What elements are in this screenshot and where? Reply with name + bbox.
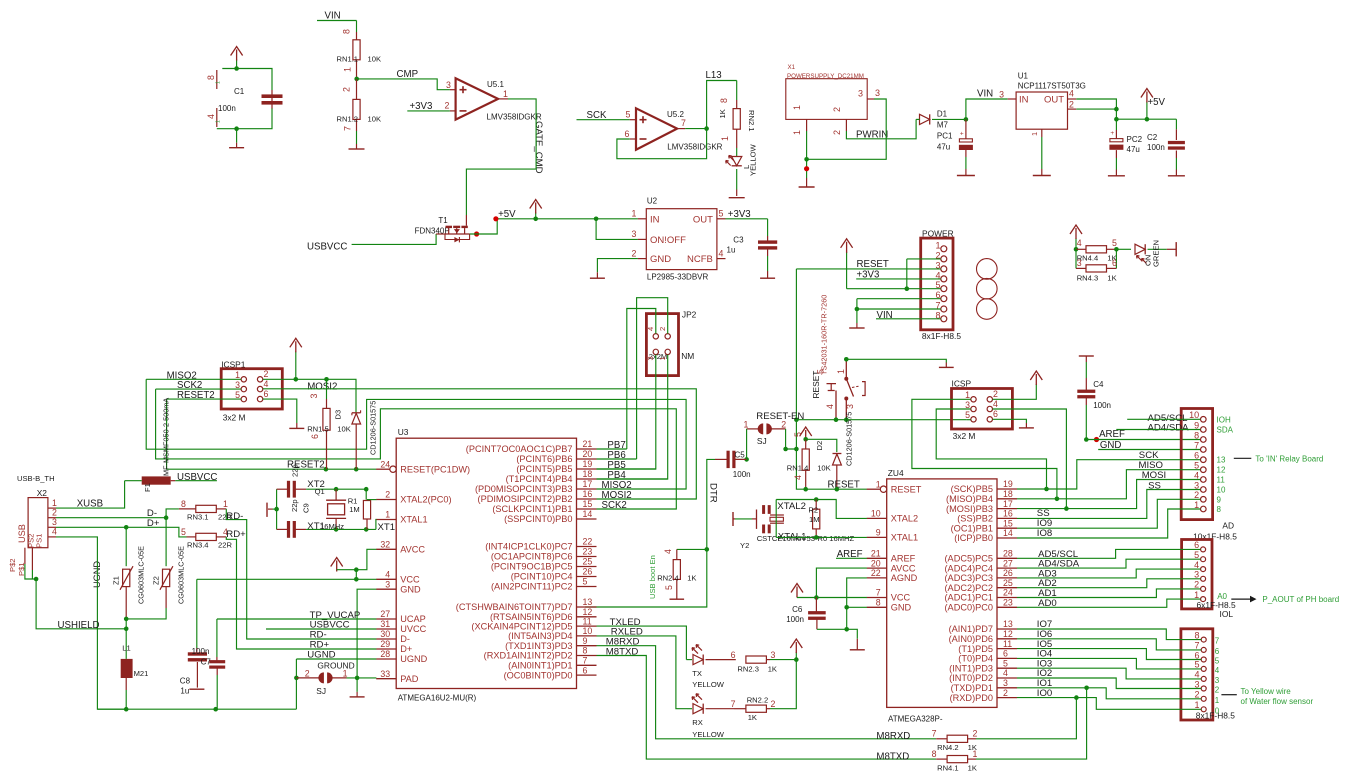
svg-text:GREEN: GREEN	[1152, 240, 1161, 267]
svg-text:(PCINT10)PC4: (PCINT10)PC4	[511, 572, 573, 582]
wire SJ pin1 to C5	[735, 429, 747, 460]
svg-text:2: 2	[973, 729, 978, 739]
svg-text:8: 8	[719, 98, 729, 103]
svg-text:23: 23	[1003, 598, 1013, 608]
svg-text:5: 5	[965, 410, 970, 420]
wire PAD row	[347, 677, 377, 679]
svg-text:100n: 100n	[1147, 143, 1165, 152]
svg-text:17: 17	[1003, 499, 1013, 509]
svg-text:1: 1	[216, 120, 222, 123]
svg-text:C7: C7	[201, 658, 212, 667]
svg-text:(AIN2PCINT11)PC2: (AIN2PCINT11)PC2	[491, 582, 573, 592]
svg-text:XTAL2(PC0): XTAL2(PC0)	[400, 495, 451, 505]
svg-text:2: 2	[385, 490, 390, 500]
svg-text:21: 21	[583, 439, 593, 449]
svg-text:LP2985-33DBVR: LP2985-33DBVR	[647, 273, 709, 282]
svg-text:(MISO)PB4: (MISO)PB4	[946, 494, 993, 504]
svg-text:47u: 47u	[937, 143, 950, 152]
X1 pin1 wire	[806, 131, 808, 178]
svg-text:SJ: SJ	[757, 436, 767, 446]
svg-text:6: 6	[1215, 647, 1220, 656]
wire AREF to AD pin8	[1200, 439, 1202, 441]
wire ICSP1 pin2 5V	[263, 379, 356, 412]
ground below U2	[596, 272, 598, 278]
svg-text:AREF: AREF	[1099, 429, 1125, 440]
wire XTAL2 stub	[367, 499, 376, 501]
resistor RN1.1	[356, 21, 358, 33]
LED TX yellow	[693, 655, 703, 665]
svg-text:6: 6	[625, 129, 630, 139]
svg-text:(ADC0)PC0: (ADC0)PC0	[945, 603, 994, 613]
op-amp U5.2	[636, 108, 677, 149]
resistor RN1.4 10K	[805, 439, 807, 449]
svg-text:IOH: IOH	[1217, 415, 1231, 424]
svg-text:2: 2	[1194, 490, 1199, 500]
svg-text:8: 8	[1194, 630, 1199, 640]
svg-text:32: 32	[380, 540, 390, 550]
svg-text:2: 2	[832, 107, 842, 112]
svg-text:TS42031-160R-TR-7260: TS42031-160R-TR-7260	[820, 295, 829, 375]
svg-text:RN4.2: RN4.2	[937, 743, 959, 752]
svg-text:1: 1	[1194, 500, 1199, 510]
capacitor C3 1u	[767, 219, 769, 236]
svg-text:2: 2	[1194, 580, 1199, 590]
svg-text:18: 18	[1003, 489, 1013, 499]
svg-text:25: 25	[583, 557, 593, 567]
svg-text:C5: C5	[735, 451, 746, 460]
svg-text:+5V: +5V	[1148, 97, 1166, 108]
svg-text:P$2: P$2	[8, 558, 17, 572]
wire 5V rail to U2	[536, 218, 638, 220]
resistor R1 1M	[365, 489, 367, 499]
svg-text:16: 16	[583, 489, 593, 499]
LED RX yellow	[693, 704, 703, 714]
ground below U1	[1041, 137, 1043, 169]
svg-text:XTAL2: XTAL2	[777, 501, 806, 512]
svg-text:NM: NM	[681, 351, 694, 361]
svg-text:USB: USB	[17, 524, 27, 543]
ground below C2	[1168, 175, 1185, 177]
svg-text:VCC: VCC	[400, 575, 420, 585]
svg-text:(ADC5)PC5: (ADC5)PC5	[945, 554, 994, 564]
resistor RN1.5 10K	[326, 379, 328, 399]
svg-text:(PDIMOSIPCINT2)PB2: (PDIMOSIPCINT2)PB2	[478, 494, 573, 504]
wire AGND ZU4	[847, 578, 867, 607]
svg-text:3: 3	[235, 380, 240, 390]
svg-text:YELLOW: YELLOW	[749, 144, 758, 176]
svg-text:22R: 22R	[218, 541, 232, 550]
svg-text:PC1: PC1	[937, 132, 953, 141]
svg-text:XTAL2: XTAL2	[891, 514, 918, 524]
VCC symbol above 5V rail	[535, 213, 537, 219]
svg-text:(PCINT5)PB5: (PCINT5)PB5	[516, 464, 572, 474]
svg-text:3x2 M: 3x2 M	[953, 431, 976, 441]
svg-text:AD: AD	[1222, 521, 1234, 531]
svg-text:(RXD)PD0: (RXD)PD0	[950, 693, 993, 703]
svg-text:28: 28	[1003, 549, 1013, 559]
svg-text:2: 2	[771, 699, 776, 709]
svg-text:21: 21	[871, 549, 881, 559]
svg-text:P_AOUT of PH board: P_AOUT of PH board	[1262, 595, 1339, 604]
svg-text:7: 7	[1215, 637, 1220, 646]
svg-text:USB-B_TH: USB-B_TH	[17, 474, 55, 483]
VCC symbol at U3 AVCC	[336, 569, 338, 572]
svg-text:10K: 10K	[337, 425, 351, 434]
U2 GND wire	[597, 259, 638, 273]
svg-text:+: +	[960, 130, 964, 137]
svg-text:1: 1	[503, 89, 508, 99]
svg-text:Z2: Z2	[151, 576, 160, 585]
wire XTAL1 stub	[375, 520, 378, 530]
svg-text:(PD0MISOPCINT3)PB3: (PD0MISOPCINT3)PB3	[475, 484, 573, 494]
svg-text:IN: IN	[1019, 95, 1029, 106]
svg-text:1: 1	[1030, 132, 1039, 136]
svg-text:X2: X2	[37, 488, 48, 498]
svg-text:NCFB: NCFB	[687, 254, 713, 265]
VCC symbol at C1	[236, 60, 238, 69]
POWER mounting holes	[977, 259, 998, 280]
svg-text:(SCK)PB5: (SCK)PB5	[951, 484, 993, 494]
svg-text:RN3.4: RN3.4	[187, 541, 209, 550]
ground below RN2.4	[670, 598, 685, 600]
svg-text:RN2.2: RN2.2	[747, 696, 769, 705]
annotation To IN Relay Board	[1234, 457, 1252, 459]
ground at crystal caps	[266, 503, 268, 517]
svg-text:26: 26	[583, 567, 593, 577]
diode D1 M7	[920, 114, 930, 124]
svg-text:U1: U1	[1018, 72, 1029, 81]
wire PB4 to JP2 pin1	[597, 355, 668, 479]
wire UGND to jumper	[295, 659, 297, 709]
ground below LED L	[729, 197, 745, 199]
svg-text:1: 1	[658, 356, 667, 360]
AD pin circles	[1201, 417, 1207, 423]
X1 pin3 wire	[807, 99, 887, 159]
svg-text:4: 4	[1215, 666, 1220, 675]
ground below C3	[767, 271, 769, 278]
svg-text:4: 4	[52, 527, 57, 537]
svg-text:1: 1	[720, 136, 730, 141]
svg-text:LMV358IDGKR: LMV358IDGKR	[667, 142, 722, 151]
svg-text:2: 2	[305, 668, 310, 678]
svg-text:4: 4	[793, 475, 803, 480]
diode D3 zener	[355, 411, 357, 413]
svg-text:18: 18	[583, 469, 593, 479]
VCC symbol +5V at U1	[1146, 102, 1148, 120]
svg-text:SJ: SJ	[316, 686, 326, 696]
svg-text:3x2 M: 3x2 M	[223, 412, 246, 422]
svg-text:1: 1	[744, 419, 749, 429]
svg-text:3: 3	[1194, 570, 1199, 580]
svg-text:TX: TX	[692, 669, 702, 678]
ground below RN1.2	[356, 144, 358, 149]
wire VCC row ZU4	[797, 597, 867, 599]
capacitor C5 100n	[727, 451, 730, 468]
svg-text:10: 10	[1189, 410, 1199, 420]
svg-text:6: 6	[264, 389, 269, 399]
svg-text:8: 8	[1194, 430, 1199, 440]
resistor RN4.4 1K	[1076, 248, 1086, 250]
svg-text:5: 5	[583, 577, 588, 587]
svg-text:4: 4	[1194, 470, 1199, 480]
wire POWER pin2 5V	[907, 258, 941, 260]
svg-text:5: 5	[1003, 658, 1008, 668]
svg-text:1K: 1K	[1107, 274, 1116, 283]
svg-text:3: 3	[446, 80, 451, 90]
svg-text:U2: U2	[647, 197, 658, 206]
capacitor C6 100n	[815, 598, 817, 612]
U5.2 feedback wire	[617, 129, 707, 159]
svg-text:13: 13	[583, 597, 593, 607]
svg-text:(INT4ICP1CLK0)PC7: (INT4ICP1CLK0)PC7	[485, 542, 572, 552]
svg-text:7: 7	[932, 729, 937, 739]
svg-text:RN4.1: RN4.1	[937, 763, 959, 772]
svg-text:RD+: RD+	[226, 529, 246, 540]
svg-text:D+: D+	[400, 644, 412, 654]
svg-text:(PCINT6)PB6: (PCINT6)PB6	[516, 454, 572, 464]
wire ICSP pin5 reset	[967, 419, 971, 421]
resistor RN3.1 22R	[196, 505, 217, 512]
svg-text:1: 1	[1215, 696, 1220, 705]
svg-text:VIN: VIN	[977, 89, 993, 100]
node RN4 output	[1114, 247, 1119, 252]
diode D2	[806, 439, 837, 452]
wire ICSP pin4 MOSI	[993, 409, 1067, 509]
ground below C6	[856, 639, 858, 650]
svg-text:(TXD)PD1: (TXD)PD1	[951, 683, 993, 693]
wire POWER pin7 gnd	[857, 308, 941, 310]
svg-text:YELLOW: YELLOW	[692, 730, 724, 739]
svg-text:3: 3	[845, 404, 855, 409]
svg-text:L13: L13	[706, 70, 722, 81]
capacitor C2 100n	[1175, 119, 1177, 129]
svg-text:1: 1	[385, 510, 390, 520]
svg-text:C1: C1	[234, 87, 245, 96]
svg-text:3: 3	[631, 229, 636, 239]
svg-text:(ADC3)PC3: (ADC3)PC3	[945, 573, 994, 583]
svg-text:(XCKAIN4PCINT12)PD5: (XCKAIN4PCINT12)PD5	[471, 621, 572, 631]
svg-text:14: 14	[1003, 528, 1013, 538]
svg-text:IN: IN	[650, 214, 660, 225]
svg-text:8: 8	[876, 598, 881, 608]
wire MISO2 bus	[146, 379, 686, 489]
wire RESET row	[796, 419, 966, 421]
svg-text:4: 4	[1077, 238, 1082, 248]
svg-text:6: 6	[1112, 258, 1117, 268]
svg-text:5: 5	[793, 432, 803, 437]
capacitor C1	[222, 69, 272, 91]
svg-text:(SCLKPCINT1)PB1: (SCLKPCINT1)PB1	[492, 504, 572, 514]
svg-text:GROUND: GROUND	[317, 661, 354, 671]
svg-text:RX: RX	[692, 718, 703, 727]
wire POWER pin6 gnd	[857, 298, 941, 300]
svg-text:6: 6	[583, 665, 588, 675]
svg-text:7: 7	[681, 118, 686, 128]
svg-text:3: 3	[309, 394, 319, 399]
svg-text:AREF: AREF	[891, 554, 916, 564]
svg-text:100n: 100n	[218, 104, 236, 113]
svg-text:(T0)PD4: (T0)PD4	[958, 654, 993, 664]
svg-text:CG0603MLC-05E: CG0603MLC-05E	[176, 546, 185, 604]
svg-text:1K: 1K	[718, 109, 727, 118]
svg-text:To 'IN' Relay Board: To 'IN' Relay Board	[1255, 455, 1323, 464]
wire ICSP pin6 gnd	[993, 419, 1027, 423]
wire ICSP1 pin6 gnd	[263, 399, 297, 423]
svg-text:1K: 1K	[768, 665, 777, 674]
svg-text:16: 16	[1003, 509, 1013, 519]
svg-text:5: 5	[1194, 660, 1199, 670]
ICSP pin circles	[971, 397, 976, 402]
svg-text:1u: 1u	[727, 245, 736, 254]
svg-text:RESET: RESET	[828, 480, 860, 491]
svg-text:(TXD1INT3)PD3: (TXD1INT3)PD3	[505, 641, 572, 651]
svg-text:(T1PCINT4)PB4: (T1PCINT4)PB4	[506, 474, 573, 484]
capacitor C7 100n	[216, 619, 218, 657]
svg-text:UCAP: UCAP	[400, 614, 426, 624]
svg-text:6: 6	[1003, 649, 1008, 659]
svg-text:OUT: OUT	[693, 214, 713, 225]
svg-text:8x1F-H8.5: 8x1F-H8.5	[922, 331, 961, 341]
svg-text:27: 27	[1003, 558, 1013, 568]
svg-text:To Yellow wire: To Yellow wire	[1241, 687, 1292, 696]
svg-text:1: 1	[965, 390, 970, 400]
svg-text:LMV358IDGKR: LMV358IDGKR	[487, 112, 542, 121]
crystal Q1 16MHz	[335, 489, 337, 500]
svg-text:A0: A0	[1217, 592, 1227, 601]
svg-text:7: 7	[1194, 641, 1199, 651]
svg-text:1: 1	[216, 81, 222, 84]
wire GND row ZU4	[847, 606, 867, 608]
svg-text:1: 1	[836, 369, 846, 374]
svg-text:1: 1	[876, 479, 881, 489]
svg-text:23: 23	[583, 547, 593, 557]
svg-text:AGND: AGND	[891, 573, 918, 583]
svg-text:RN1.4: RN1.4	[787, 464, 809, 473]
svg-text:27: 27	[380, 609, 390, 619]
ICSP1 pin circles	[241, 377, 246, 382]
ground sideways at LED green	[1167, 248, 1176, 250]
svg-text:3: 3	[1194, 480, 1199, 490]
wire RESET vertical	[796, 269, 867, 489]
svg-text:5: 5	[1194, 550, 1199, 560]
varistor Z1	[125, 527, 127, 566]
svg-text:5: 5	[816, 369, 826, 374]
svg-text:16MHz: 16MHz	[320, 522, 344, 531]
svg-text:2: 2	[1215, 686, 1220, 695]
svg-text:C4: C4	[1093, 380, 1104, 389]
svg-text:12: 12	[1003, 629, 1013, 639]
svg-text:6: 6	[310, 434, 320, 439]
svg-text:5: 5	[719, 209, 724, 219]
wire VCC row	[197, 578, 377, 580]
ground at C1	[234, 126, 239, 131]
ground below PC1	[957, 175, 975, 177]
svg-text:(MOSI)PB3: (MOSI)PB3	[946, 504, 993, 514]
svg-text:10K: 10K	[368, 55, 382, 64]
svg-text:(PCINT7OC0AOC1C)PB7: (PCINT7OC0AOC1C)PB7	[466, 444, 573, 454]
IOD pin circles	[1201, 637, 1206, 642]
svg-text:D2: D2	[815, 441, 824, 451]
svg-text:(ADC1)PC1: (ADC1)PC1	[945, 593, 994, 603]
resistor RN3.4 22R	[196, 533, 217, 540]
svg-text:U3: U3	[398, 427, 409, 437]
resistor RN2.1	[736, 81, 738, 101]
svg-text:RN2.4: RN2.4	[657, 574, 679, 583]
wire bottom ground row	[97, 708, 296, 710]
ground left of Y2	[732, 512, 734, 526]
svg-text:+: +	[1110, 130, 1114, 137]
svg-text:2: 2	[1069, 100, 1074, 110]
svg-text:MF-MSMF050-2 500mA: MF-MSMF050-2 500mA	[162, 398, 171, 476]
svg-text:4: 4	[264, 379, 269, 389]
svg-text:ON!OFF: ON!OFF	[650, 235, 686, 246]
svg-text:10K: 10K	[368, 115, 382, 124]
svg-text:3: 3	[1003, 678, 1008, 688]
svg-text:0: 0	[1215, 706, 1220, 715]
resonator Y2 CSTCE16M	[756, 510, 758, 529]
svg-text:2: 2	[781, 419, 786, 429]
svg-text:NCP1117ST50T3G: NCP1117ST50T3G	[1018, 82, 1086, 91]
svg-text:10: 10	[1217, 486, 1226, 495]
wire PB5 to JP2 pin3	[597, 355, 656, 469]
svg-text:10K: 10K	[817, 464, 831, 473]
svg-text:5: 5	[1112, 238, 1117, 248]
svg-text:3: 3	[646, 356, 655, 360]
svg-text:6: 6	[1194, 540, 1199, 550]
VCC symbol at RN2.3	[795, 652, 797, 660]
wire SCK2 bus	[156, 389, 677, 509]
svg-text:28: 28	[380, 649, 390, 659]
VCC symbol at ZU4	[796, 597, 798, 598]
svg-text:22: 22	[871, 568, 881, 578]
svg-text:ATMEGA328P-: ATMEGA328P-	[888, 715, 943, 724]
svg-text:AVCC: AVCC	[891, 563, 916, 573]
resistor RN4.2 1K	[936, 738, 946, 740]
svg-text:5: 5	[1215, 657, 1220, 666]
wire POWER pin5 5V	[847, 288, 941, 290]
svg-text:AD4/SDA: AD4/SDA	[1148, 423, 1190, 434]
svg-text:25: 25	[1003, 578, 1013, 588]
svg-text:8: 8	[583, 646, 588, 656]
svg-text:GND: GND	[891, 603, 912, 613]
svg-text:USB boot En: USB boot En	[648, 555, 657, 599]
resistor RN2.3 1K	[746, 656, 767, 663]
op-amp U5.1	[456, 78, 499, 119]
svg-text:22p: 22p	[290, 499, 299, 512]
resistor RN1.2	[356, 79, 358, 100]
svg-text:29: 29	[380, 639, 390, 649]
svg-text:1M: 1M	[809, 515, 820, 524]
ground right of switch	[945, 363, 947, 368]
annotation To Yellow wire	[1221, 694, 1236, 696]
svg-text:14: 14	[583, 509, 593, 519]
svg-text:4: 4	[1069, 89, 1074, 99]
svg-text:1u: 1u	[180, 686, 189, 695]
svg-text:SCK2: SCK2	[602, 500, 627, 511]
resistor R2 1M	[815, 500, 817, 510]
LED L yellow	[736, 148, 738, 157]
svg-text:2: 2	[1003, 688, 1008, 698]
capacitor XT2 22p	[277, 488, 288, 490]
wire T1 to +5V node	[470, 219, 536, 234]
svg-text:D3: D3	[334, 410, 343, 420]
svg-text:8: 8	[181, 499, 186, 509]
svg-text:6: 6	[993, 409, 998, 419]
svg-text:VCC: VCC	[891, 593, 911, 603]
svg-text:3: 3	[999, 90, 1004, 100]
svg-text:GND: GND	[650, 254, 671, 265]
svg-text:13: 13	[1003, 619, 1013, 629]
